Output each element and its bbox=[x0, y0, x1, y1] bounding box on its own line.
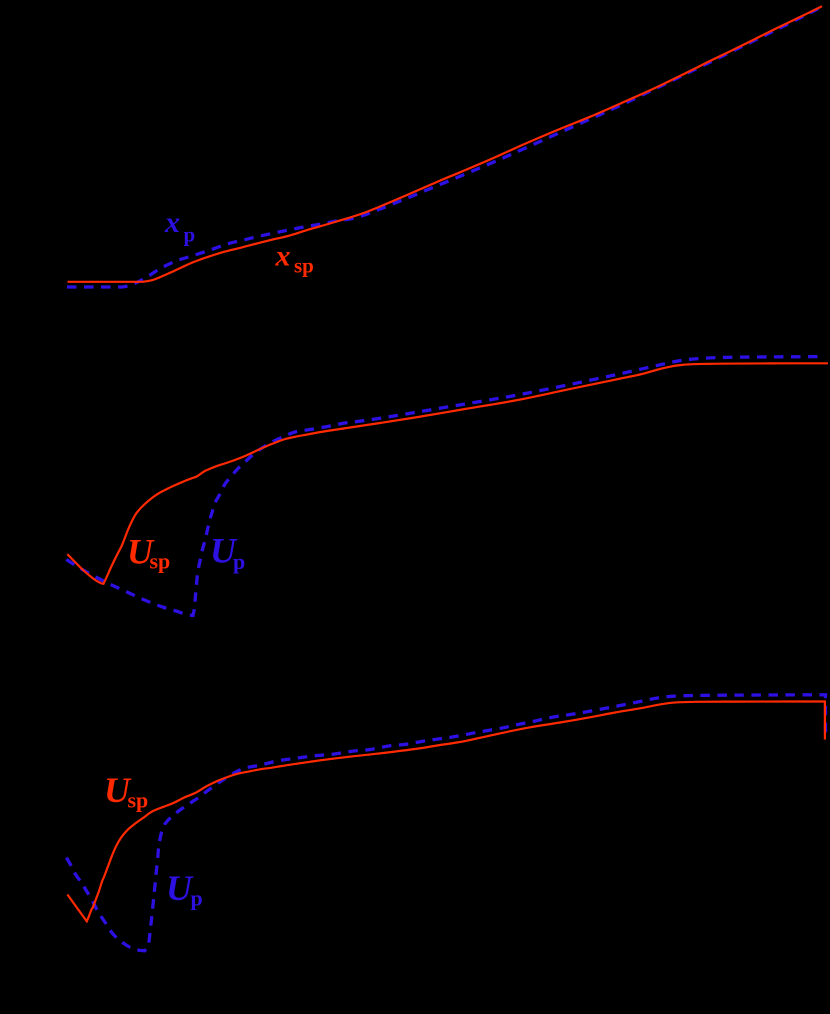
svg-text:sp: sp bbox=[150, 549, 171, 574]
wire x_sp curve top plot (red solid) bbox=[68, 6, 823, 282]
wire U_sp curve bottom plot (red solid) bbox=[67, 702, 825, 922]
wire x_p curve top plot (blue dashed) bbox=[67, 8, 819, 287]
wire U_sp curve middle plot (red solid) bbox=[67, 363, 828, 584]
node label U_p middle (blue) bbox=[210, 530, 245, 574]
svg-text:p: p bbox=[184, 223, 196, 247]
svg-text:sp: sp bbox=[294, 254, 314, 278]
node label x_sp (red) bbox=[275, 240, 314, 278]
svg-text:sp: sp bbox=[128, 788, 149, 813]
svg-text:p: p bbox=[233, 549, 245, 574]
svg-text:x: x bbox=[164, 206, 180, 239]
svg-text:x: x bbox=[275, 240, 291, 273]
node label x_p (blue) bbox=[164, 206, 195, 247]
node label U_sp middle (red) bbox=[127, 531, 170, 573]
svg-text:p: p bbox=[191, 886, 203, 911]
node label U_p bottom (blue) bbox=[166, 868, 203, 910]
wire U_p curve bottom plot (blue dashed) bbox=[66, 695, 825, 951]
wire U_p curve middle plot (blue dashed) bbox=[66, 357, 821, 616]
node label U_sp bottom (red) bbox=[104, 770, 148, 813]
